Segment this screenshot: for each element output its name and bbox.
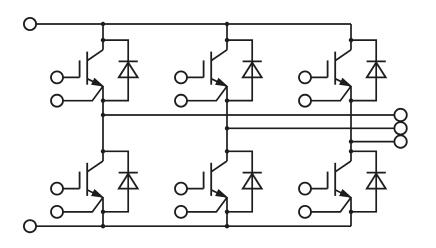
transistor Q1 gate bar	[79, 60, 81, 77]
terminal G2 gate of Q2	[175, 71, 187, 83]
terminal E4 aux emitter of Q4	[51, 206, 63, 218]
terminal G6 gate of Q6	[299, 183, 311, 195]
terminal V right	[394, 122, 406, 134]
wire aux emitter lead Q2	[187, 87, 227, 101]
junction dot phase W tap	[349, 139, 353, 143]
terminal U right	[394, 109, 406, 121]
junction dot emitter Q5	[225, 210, 229, 214]
wire diode D5 branch	[227, 151, 252, 212]
wire gate lead Q6	[311, 188, 328, 190]
wire leg 2 collector drop	[226, 24, 228, 50]
wire diode D4 branch	[103, 151, 128, 212]
junction dot diode D3 top tap	[349, 38, 353, 42]
junction dot phase V tap	[225, 126, 229, 130]
wire leg 3 bottom emitter drop	[350, 198, 352, 227]
wire collector lead Q5	[211, 161, 227, 172]
transistor Q6 emitter arrow	[335, 190, 351, 198]
diode D6	[367, 172, 386, 174]
junction dot emitter Q4	[101, 210, 105, 214]
transistor Q2 body bar	[210, 52, 212, 85]
junction dot diode D2 top tap	[225, 38, 229, 42]
wire gate lead Q1	[63, 76, 80, 78]
wire aux emitter lead Q3	[311, 87, 351, 101]
diode D2	[243, 60, 262, 62]
terminal E5 aux emitter of Q5	[175, 206, 187, 218]
transistor Q2 gate bar	[203, 60, 205, 77]
wire collector lead Q3	[335, 50, 351, 61]
wire leg 2 bottom emitter drop	[226, 198, 228, 227]
wire leg 3 midpoint vertical	[350, 86, 352, 161]
wire gate lead Q4	[63, 188, 80, 190]
wire collector lead Q4	[87, 161, 103, 172]
diode D5	[243, 172, 262, 174]
wire aux emitter lead Q5	[187, 198, 227, 212]
wire aux emitter lead Q1	[63, 87, 103, 101]
wire leg 3 collector drop	[350, 24, 352, 50]
wire leg 1 bottom emitter drop	[102, 198, 104, 227]
junction dot diode D6 top tap	[349, 149, 353, 153]
wire bottom DC- bus	[36, 225, 351, 227]
terminal E1 aux emitter of Q1	[51, 95, 63, 107]
junction dot diode D4 top tap	[101, 149, 105, 153]
junction dot emitter Q2	[225, 98, 229, 102]
junction dot diode D1 top tap	[101, 38, 105, 42]
transistor Q1 emitter arrow	[87, 79, 103, 87]
transistor Q3 gate bar	[327, 60, 329, 77]
diode D3	[367, 60, 386, 62]
wire phase U output	[103, 114, 395, 116]
junction dot leg 2 bottom bus	[225, 224, 229, 228]
terminal W right	[394, 135, 406, 147]
wire gate lead Q2	[187, 76, 204, 78]
transistor Q1 body bar	[86, 52, 88, 85]
wire leg 2 midpoint vertical	[226, 86, 228, 161]
transistor Q3 emitter arrow	[335, 79, 351, 87]
terminal G4 gate of Q4	[51, 183, 63, 195]
wire aux emitter lead Q6	[311, 198, 351, 212]
wire gate lead Q5	[187, 188, 204, 190]
transistor Q4 emitter arrow	[87, 190, 103, 198]
wire diode D1 branch	[103, 40, 128, 101]
junction dot emitter Q6	[349, 210, 353, 214]
transistor Q4 gate bar	[79, 172, 81, 189]
junction dot leg 2 top bus	[225, 22, 229, 26]
terminal P (DC+) top-left	[24, 18, 36, 30]
wire phase W output	[351, 141, 395, 143]
wire phase V output	[227, 127, 395, 129]
wire gate lead Q3	[311, 76, 328, 78]
wire collector lead Q2	[211, 50, 227, 61]
terminal G5 gate of Q5	[175, 183, 187, 195]
terminal G1 gate of Q1	[51, 71, 63, 83]
transistor Q2 emitter arrow	[211, 79, 227, 87]
terminal N (DC-) bottom-left	[24, 220, 36, 232]
junction dot diode D5 top tap	[225, 149, 229, 153]
wire collector lead Q6	[335, 161, 351, 172]
wire aux emitter lead Q4	[63, 198, 103, 212]
wire collector lead Q1	[87, 50, 103, 61]
wire diode D3 branch	[351, 40, 376, 101]
transistor Q5 emitter arrow	[211, 190, 227, 198]
junction dot emitter Q3	[349, 98, 353, 102]
terminal E2 aux emitter of Q2	[175, 95, 187, 107]
transistor Q3 body bar	[334, 52, 336, 85]
junction dot leg 1 bottom bus	[101, 224, 105, 228]
terminal G3 gate of Q3	[299, 71, 311, 83]
transistor Q6 gate bar	[327, 172, 329, 189]
terminal E6 aux emitter of Q6	[299, 206, 311, 218]
junction dot phase U tap	[101, 113, 105, 117]
transistor Q6 body bar	[334, 163, 336, 196]
wire leg 1 midpoint vertical	[102, 86, 104, 161]
wire diode D6 branch	[351, 151, 376, 212]
diode D4	[119, 172, 138, 174]
diode D1	[119, 60, 138, 62]
wire diode D2 branch	[227, 40, 252, 101]
terminal E3 aux emitter of Q3	[299, 95, 311, 107]
junction dot emitter Q1	[101, 98, 105, 102]
wire leg 1 collector drop	[102, 24, 104, 50]
transistor Q4 body bar	[86, 163, 88, 196]
junction dot leg 1 top bus	[101, 22, 105, 26]
transistor Q5 gate bar	[203, 172, 205, 189]
transistor Q5 body bar	[210, 163, 212, 196]
wire top DC+ bus	[36, 23, 351, 25]
